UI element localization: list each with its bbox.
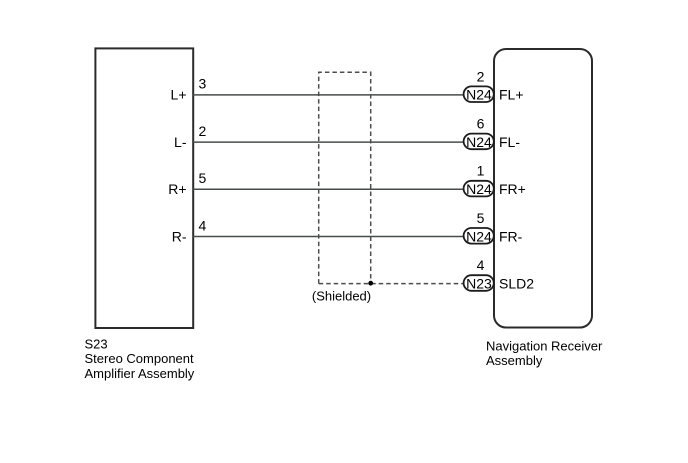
svg-text:N24: N24 bbox=[466, 87, 492, 103]
svg-text:(Shielded): (Shielded) bbox=[312, 289, 371, 304]
svg-text:FL+: FL+ bbox=[499, 87, 524, 103]
svg-text:FL-: FL- bbox=[499, 134, 520, 150]
svg-text:FR+: FR+ bbox=[499, 181, 526, 197]
svg-text:4: 4 bbox=[199, 217, 207, 233]
svg-text:2: 2 bbox=[199, 123, 207, 139]
terminal oval N24 (FL-) bbox=[464, 134, 494, 150]
svg-text:S23: S23 bbox=[85, 336, 108, 351]
wire R- to FR- bbox=[193, 236, 464, 238]
connector Navigation Receiver Assembly body bbox=[494, 49, 592, 328]
wire L+ to FL+ bbox=[193, 94, 464, 96]
label S23 Stereo Component Amplifier Assembly bbox=[85, 336, 195, 381]
terminal oval N24 (FR-) bbox=[464, 228, 494, 244]
svg-text:4: 4 bbox=[477, 257, 485, 273]
svg-text:N24: N24 bbox=[466, 228, 492, 244]
terminal oval N24 (FR+) bbox=[464, 181, 494, 197]
wire L- to FL- bbox=[193, 141, 464, 143]
svg-text:SLD2: SLD2 bbox=[499, 276, 534, 292]
svg-text:L+: L+ bbox=[171, 87, 187, 103]
shield outline (dashed box around speaker wires) bbox=[319, 72, 371, 283]
svg-text:5: 5 bbox=[199, 170, 207, 186]
svg-text:Assembly: Assembly bbox=[486, 353, 543, 368]
svg-text:FR-: FR- bbox=[499, 228, 523, 244]
svg-text:R-: R- bbox=[172, 228, 187, 244]
terminal oval N24 (FL+) bbox=[464, 86, 494, 102]
shield drain wire (dashed) to SLD2 bbox=[319, 283, 464, 285]
svg-text:N24: N24 bbox=[466, 134, 492, 150]
svg-text:6: 6 bbox=[477, 116, 485, 132]
connector S23 (Stereo Component Amplifier Assembly) body bbox=[95, 48, 193, 328]
svg-text:Amplifier Assembly: Amplifier Assembly bbox=[85, 366, 195, 381]
svg-text:3: 3 bbox=[199, 76, 207, 92]
svg-text:L-: L- bbox=[174, 134, 187, 150]
label Navigation Receiver Assembly bbox=[486, 338, 603, 368]
junction dot (shield to drain wire) bbox=[368, 281, 373, 286]
svg-text:Navigation Receiver: Navigation Receiver bbox=[486, 338, 603, 353]
svg-text:N24: N24 bbox=[466, 181, 492, 197]
svg-text:2: 2 bbox=[477, 68, 485, 84]
terminal oval N23 (SLD2) bbox=[464, 275, 494, 291]
svg-text:Stereo Component: Stereo Component bbox=[85, 351, 195, 366]
svg-text:5: 5 bbox=[477, 210, 485, 226]
svg-text:1: 1 bbox=[477, 163, 485, 179]
svg-text:N23: N23 bbox=[466, 276, 492, 292]
svg-text:R+: R+ bbox=[168, 181, 186, 197]
wire R+ to FR+ bbox=[193, 188, 464, 190]
